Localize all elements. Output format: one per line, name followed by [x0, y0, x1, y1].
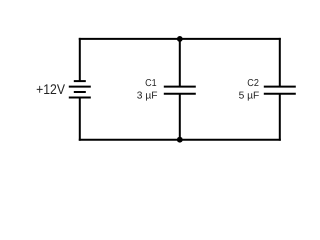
svg-text:C2: C2 — [247, 78, 259, 89]
node junction top — [177, 36, 183, 42]
capacitor C1 — [164, 87, 196, 94]
wire middle upper (top junction to C1) — [179, 39, 181, 87]
wire middle lower (C1 to bottom junction) — [179, 94, 181, 140]
wire bottom rail — [79, 139, 281, 141]
capacitor C2 — [264, 87, 296, 94]
svg-text:3 µF: 3 µF — [137, 91, 158, 102]
svg-text:C1: C1 — [145, 78, 157, 89]
wire left upper (top rail to battery) — [79, 38, 81, 81]
wire left lower (battery to bottom rail) — [79, 98, 81, 141]
svg-text:+12V: +12V — [36, 81, 65, 97]
wire top rail — [79, 38, 281, 40]
battery (two-cell symbol) — [69, 81, 91, 97]
svg-text:5 µF: 5 µF — [239, 91, 260, 102]
node junction bottom — [177, 137, 183, 143]
wire right lower (C2 to bottom rail) — [279, 94, 281, 141]
wire right upper (top rail to C2) — [279, 38, 281, 87]
